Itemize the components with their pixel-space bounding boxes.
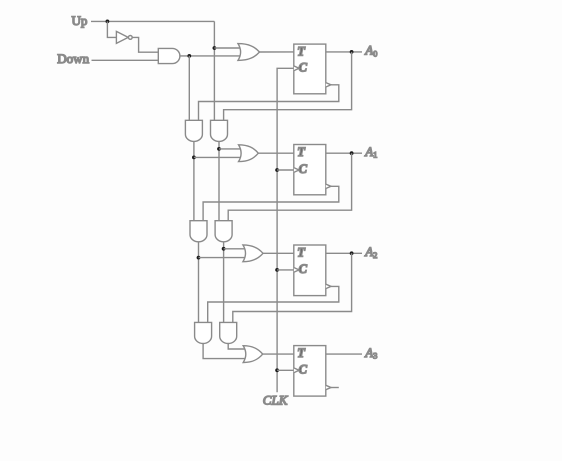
wire FF3 Q-complement stub	[331, 387, 339, 389]
wire A2 feedback to AND A3R	[233, 253, 352, 322]
wire Up junction down to inverter level	[107, 21, 116, 37]
svg-text:C: C	[299, 363, 308, 377]
inverter (Up complement)	[116, 31, 128, 43]
node A1 output junction	[350, 151, 354, 155]
svg-text:C: C	[299, 162, 308, 176]
wire A0 feedback to AND A1R	[224, 52, 352, 120]
wire FF1 Q-complement feedback to AND A2L	[203, 186, 339, 220]
wire FF1 Q output to A1	[326, 152, 362, 154]
wire down-chain from G0 junction to AND A1L	[188, 56, 190, 120]
wire up-chain Up vertical to AND A1R	[213, 21, 215, 120]
OR gate O0 (T0 input)	[238, 44, 260, 61]
wire CLK branch to FF3 C input	[277, 369, 294, 371]
svg-text:Down: Down	[57, 51, 89, 66]
OR gate O1 (T1 input)	[239, 145, 259, 162]
Q-complement wedge FF1	[326, 184, 331, 188]
AND gate A1R (up chain)	[211, 120, 228, 141]
svg-text:A3: A3	[364, 345, 377, 361]
OR gate O2 (T2 input)	[243, 245, 263, 262]
node CLK junction FF2	[275, 268, 279, 272]
Q-complement wedge FF2	[326, 284, 331, 288]
T flip-flop FF1	[294, 145, 326, 195]
wire O0 output to FF0 T input	[260, 51, 294, 53]
wire FF0 Q output to A0	[326, 51, 362, 53]
wire FF0 Q-complement feedback to AND A1L	[199, 85, 339, 121]
clock wedge FF0	[294, 66, 299, 71]
wire O1 output to FF1 T input	[258, 152, 294, 154]
wire A3L output to OR O3 bottom input	[203, 344, 246, 359]
node A2L output junction	[197, 256, 201, 260]
wire O3 output to FF3 T input	[263, 353, 294, 355]
svg-text:C: C	[299, 262, 308, 276]
AND gate A2L (down chain)	[190, 221, 207, 242]
node CLK junction FF3	[275, 368, 279, 372]
AND gate G0 (not-Up AND Down)	[158, 48, 180, 63]
svg-text:T: T	[297, 145, 306, 159]
wire A1 feedback to AND A2R	[228, 153, 351, 221]
T flip-flop FF2	[294, 245, 326, 296]
node Up branch junction	[106, 20, 110, 24]
svg-text:C: C	[299, 61, 308, 75]
node A0 output junction	[350, 50, 354, 54]
wire FF2 Q-complement feedback to AND A3L	[208, 286, 339, 322]
Q-complement wedge FF0	[326, 83, 331, 87]
wire CLK branch to FF1 C input	[277, 169, 294, 171]
wire A2R junction to OR O2 top input	[224, 248, 246, 250]
AND gate A3R (up chain)	[220, 322, 237, 343]
wire CLK vertical net	[277, 68, 294, 392]
T flip-flop FF3	[294, 346, 326, 397]
wire A1R junction to OR O1 top input	[219, 148, 242, 150]
Q-complement wedge FF3	[326, 385, 331, 389]
wire inverter output to AND gate top input	[132, 37, 158, 52]
wire G0 output to OR gate O0	[180, 55, 241, 57]
wire A2R output down-chain	[223, 242, 225, 323]
wire A2L output down-chain	[198, 242, 200, 323]
wire Up input to corner	[91, 20, 214, 22]
OR gate O3 (T3 input)	[243, 346, 263, 363]
wire A1R output down-chain	[218, 141, 220, 220]
svg-text:T: T	[297, 45, 306, 59]
wire A1L output down-chain	[193, 141, 195, 220]
node A1R output junction	[217, 147, 221, 151]
svg-text:Up: Up	[72, 13, 88, 28]
svg-text:A0: A0	[364, 43, 377, 59]
clock wedge FF1	[294, 168, 299, 173]
node A2 output junction	[350, 251, 354, 255]
wire A2L junction to OR O2 bottom input	[199, 257, 246, 259]
wire Up junction to OR O0 top input	[214, 47, 241, 49]
wire FF3 Q output to A3	[326, 353, 362, 355]
node CLK junction FF1	[275, 168, 279, 172]
wire Down input	[92, 59, 159, 61]
wire A3R output to OR O3 top input	[228, 344, 246, 350]
AND gate A3L (down chain)	[195, 322, 212, 343]
wire CLK branch to FF2 C input	[277, 269, 294, 271]
clock wedge FF3	[294, 368, 299, 373]
wire FF2 Q output to A2	[326, 252, 362, 254]
node G0 output junction	[187, 54, 191, 58]
svg-text:A1: A1	[364, 144, 377, 160]
node Up line junction at OR O0	[213, 46, 217, 50]
svg-text:CLK: CLK	[263, 393, 289, 408]
svg-text:T: T	[297, 246, 306, 260]
wire A1L junction to OR O1 bottom input	[194, 156, 242, 158]
svg-text:A2: A2	[364, 244, 377, 260]
clock wedge FF2	[294, 268, 299, 273]
AND gate A2R (up chain)	[215, 221, 232, 242]
AND gate A1L (down chain)	[185, 120, 202, 141]
T flip-flop FF0	[294, 44, 326, 94]
wire O2 output to FF2 T input	[263, 252, 294, 254]
node A1L output junction	[192, 156, 196, 160]
svg-text:T: T	[297, 346, 306, 360]
node A2R output junction	[222, 247, 226, 251]
